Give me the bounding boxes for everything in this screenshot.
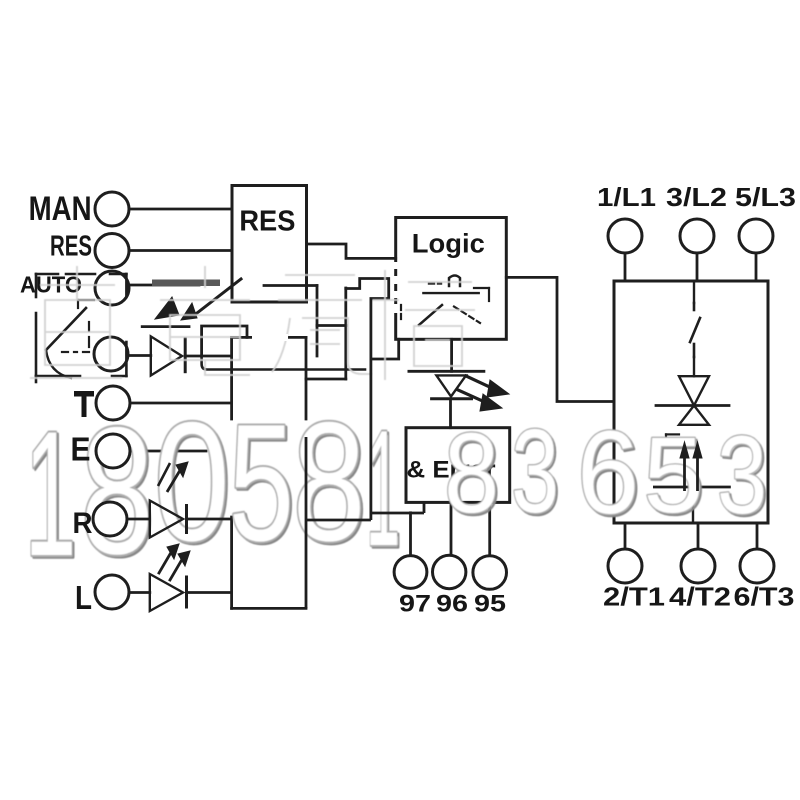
switch S1 contact [197,279,241,313]
terminal 97 [394,556,427,589]
svg-text:8: 8 [81,390,154,591]
bus wire v2 [344,288,347,379]
watermark chinese char 2 [160,266,250,375]
LED D1 arrows [155,297,179,319]
wire inner stub [264,284,317,287]
Logic inner marks [423,292,478,294]
svg-text:96: 96 [436,591,468,618]
LED D3 arrows [167,467,182,492]
svg-text:6/T3: 6/T3 [734,582,795,612]
block Logic [396,218,507,340]
manual switch lever [46,308,86,350]
wire R row [127,518,150,521]
terminal R [93,502,127,536]
gate arrows [680,442,702,491]
terminal 3/L2 [680,219,714,253]
terminal 2/T1 [608,549,642,583]
LED D4 [150,574,183,611]
wire 95 [488,502,491,556]
block aux contact [232,336,306,339]
watermark chinese char 4 [372,270,475,380]
terminal ground T [96,386,130,420]
svg-text:8: 8 [444,410,499,537]
svg-text:3: 3 [717,414,767,537]
terminal RES [95,234,129,268]
label ground [74,391,94,397]
terminal 5/L3 [739,219,773,253]
wire Logic bottom-left [371,339,399,359]
bus step wire [346,279,389,299]
manual actuator box (eroded) [36,273,58,276]
wire Logic drop to error box [369,299,372,521]
wire RES to Logic [307,244,396,258]
wire Logic to D2 [450,339,453,371]
LED D1 [151,336,182,375]
terminal 1/L1 [608,219,642,253]
svg-text:8: 8 [293,388,366,577]
svg-text:97: 97 [399,591,431,618]
svg-text:1/L1: 1/L1 [597,182,656,212]
terminal aux (unlabeled) [94,337,128,371]
block RES [232,186,307,303]
svg-text:MAN: MAN [29,190,92,228]
Logic inner switch dashes [419,305,442,325]
svg-text:5: 5 [229,391,294,576]
terminal AUT [95,271,129,305]
svg-text:0: 0 [154,387,230,577]
terminal 6/T3 [740,549,774,583]
block aux contact right edge [305,437,308,608]
svg-text:R: R [73,507,93,540]
svg-text:5/L3: 5/L3 [735,182,796,212]
wire triac rail [656,404,729,407]
svg-text:3/L2: 3/L2 [666,182,727,212]
terminal MAN [95,192,129,226]
wire fragment above D1 [142,325,189,328]
block error relay [406,428,510,503]
wire 96 [450,502,453,555]
LED D2 [409,370,484,373]
wire L row [129,591,150,594]
svg-text:3: 3 [511,405,559,538]
block power section [614,281,768,523]
svg-text:L: L [75,579,92,616]
LED D4 arrows [159,549,173,573]
svg-text:RES: RES [239,205,295,237]
wire 97 [409,513,412,556]
svg-text:2/T1: 2/T1 [603,582,665,612]
triac V1 [693,357,695,376]
actuator dash-dot [62,351,68,353]
erosion patches [252,262,399,341]
svg-text:95: 95 [474,591,506,618]
wire E [131,450,160,453]
watermark chinese char 3 [272,275,372,374]
wire Logic to power block [506,277,614,401]
watermark chinese char 1 (outline only) [30,266,475,380]
bus wire h fragment [317,324,346,327]
svg-text:Logic: Logic [412,229,485,259]
relay contact K1 [693,281,695,303]
svg-text:6: 6 [577,407,639,538]
svg-text:RES: RES [50,231,92,263]
LED D3 [150,501,183,538]
wire D1 up branch [202,326,247,356]
svg-text:1: 1 [25,396,77,594]
wire AUT thick segment [152,280,220,287]
gate dashes [666,433,679,435]
wire lower rail [654,486,729,489]
svg-text:E: E [71,431,91,468]
terminal 4/T2 [681,549,715,583]
LED D2 arrows [466,376,494,389]
bus wire v1 [316,286,319,357]
wire D1 cathode [185,355,201,358]
svg-text:4/T2: 4/T2 [669,582,731,612]
svg-text:5: 5 [643,414,703,535]
watermark phone number [25,387,769,596]
wire D2 to error box [449,399,452,428]
terminal 96 [433,555,466,588]
terminal L [95,575,129,609]
terminal E [96,434,130,468]
terminal 95 [473,556,507,590]
